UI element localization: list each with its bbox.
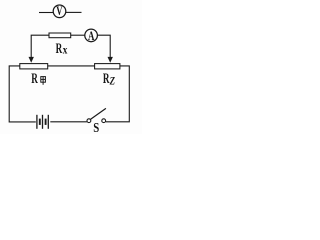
- wire linking R甲 and RZ: [48, 65, 95, 67]
- switch S contacts and lever: [87, 108, 106, 122]
- battery cells: [37, 115, 48, 129]
- 甲 glyph drawn (CJK not in Liberation): [41, 77, 46, 85]
- svg-text:R: R: [31, 71, 38, 87]
- R甲 wiper arrowhead: [29, 57, 34, 63]
- wire battery to switch: [50, 121, 87, 123]
- wire Rx to ammeter: [71, 34, 85, 36]
- svg-text:S: S: [93, 120, 99, 134]
- wire from R甲 wiper corner to Rx box: [31, 35, 49, 58]
- rheostat R甲 box: [20, 64, 48, 69]
- wire RZ right terminal to right edge down to switch: [106, 66, 130, 122]
- wire ammeter to RZ wiper corner: [97, 35, 110, 58]
- svg-text:x: x: [63, 42, 68, 56]
- voltmeter U-V right lead wire: [66, 11, 82, 13]
- voltmeter V circle: [53, 5, 66, 18]
- svg-text:V: V: [56, 4, 62, 18]
- svg-text:R: R: [56, 41, 63, 57]
- resistor Rx box: [49, 33, 71, 38]
- voltmeter U-V left lead wire: [39, 12, 53, 14]
- svg-text:R: R: [103, 71, 110, 87]
- rheostat RZ box: [95, 64, 120, 69]
- ammeter A circle: [85, 29, 98, 42]
- svg-text:Z: Z: [109, 75, 115, 87]
- svg-text:A: A: [88, 28, 95, 43]
- RZ wiper arrowhead: [108, 57, 113, 63]
- wire R甲 left terminal to left edge down to battery: [9, 66, 36, 122]
